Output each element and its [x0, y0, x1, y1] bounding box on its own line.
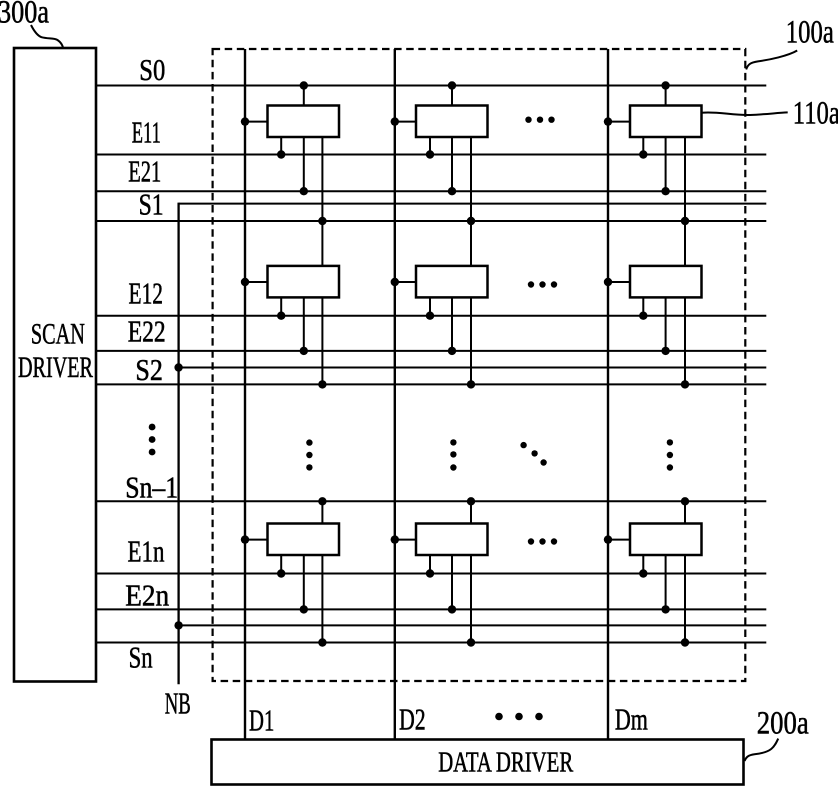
svg-text:Dm: Dm: [615, 701, 648, 736]
pixel block 110a row2 col1 with pins: [241, 266, 339, 389]
wire S0: [96, 85, 766, 87]
svg-text:DRIVER: DRIVER: [18, 351, 93, 384]
wire E22: [96, 350, 766, 352]
wire E11: [96, 154, 766, 156]
pixel block 110a rown col2 with pins: [391, 497, 488, 647]
wire NB branch 1: [179, 203, 767, 205]
svg-text:E1n: E1n: [128, 534, 165, 569]
pixel block 110a row2 col2 with pins: [391, 266, 488, 389]
wire E12: [96, 315, 766, 317]
ellipsis row1 between columns: [525, 117, 554, 123]
leader line 200a: [745, 739, 779, 761]
pixel block 110a row2 colm with pins: [604, 266, 702, 389]
display panel dashed boundary 100a: [213, 49, 746, 681]
svg-text:E12: E12: [129, 276, 164, 311]
junction NB-to-branch3: [174, 621, 182, 629]
svg-text:D1: D1: [249, 703, 274, 738]
svg-text:S1: S1: [139, 187, 164, 222]
leader line 110a: [701, 112, 787, 115]
wire E21: [96, 190, 766, 192]
svg-text:SCAN: SCAN: [31, 318, 85, 351]
pixel block 110a row1 col1 with pins: [241, 81, 339, 266]
svg-text:200a: 200a: [757, 706, 809, 742]
pixel block 110a row1 col2 with pins: [391, 81, 488, 266]
ellipsis rown between columns: [528, 538, 557, 544]
svg-text:E22: E22: [128, 314, 166, 349]
svg-text:E2n: E2n: [125, 578, 169, 613]
scan driver block 300a: [14, 48, 96, 682]
ellipsis rows colm: [667, 439, 673, 471]
ellipsis between D2 and Dm: [495, 713, 543, 721]
pixel block 110a rown col1 with pins: [241, 497, 339, 647]
svg-text:S2: S2: [135, 352, 163, 387]
ellipsis rows col2: [450, 439, 456, 471]
ellipsis rows col1: [306, 439, 312, 470]
svg-text:Sn–1: Sn–1: [125, 470, 178, 505]
wire data line D2: [394, 49, 396, 740]
ellipsis row2 between columns: [528, 281, 557, 287]
wire net NB vertical: [177, 203, 179, 685]
wire data line Dm: [607, 49, 609, 740]
svg-text:S0: S0: [139, 52, 165, 87]
wire data line D1: [244, 49, 246, 740]
wire E1n: [96, 573, 766, 575]
svg-text:100a: 100a: [786, 15, 834, 51]
data driver block 200a: [212, 740, 744, 785]
svg-text:DATA DRIVER: DATA DRIVER: [438, 748, 573, 779]
wire NB branch 2: [179, 367, 767, 369]
wire Sn: [96, 642, 766, 644]
wire S2: [96, 383, 766, 385]
svg-text:E21: E21: [128, 154, 161, 189]
svg-text:Sn: Sn: [129, 640, 153, 675]
svg-text:300a: 300a: [0, 0, 49, 31]
leader line 300a: [31, 25, 63, 48]
leader line 100a: [746, 51, 797, 70]
svg-text:110a: 110a: [793, 96, 838, 132]
ellipsis diagonal centre: [520, 442, 546, 466]
svg-text:NB: NB: [165, 686, 191, 721]
pixel block 110a rown colm with pins: [604, 497, 702, 647]
junction NB-to-branch2: [174, 363, 182, 371]
wire S1: [96, 220, 766, 222]
wire Sn-1: [96, 500, 766, 502]
svg-text:D2: D2: [399, 702, 426, 737]
wire E2n: [96, 608, 766, 610]
pixel block 110a row1 colm with pins: [604, 81, 702, 266]
svg-text:E11: E11: [132, 115, 161, 150]
wire NB branch 3: [179, 624, 767, 626]
ellipsis scan rows left: [149, 424, 156, 456]
